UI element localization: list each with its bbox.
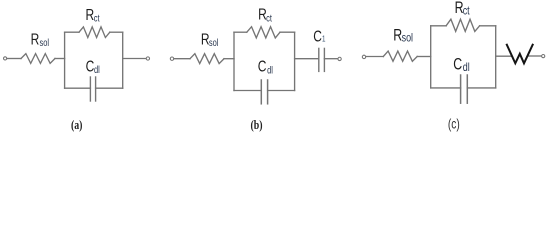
wire to Warburg (c) <box>496 55 511 57</box>
svg-text:dl: dl <box>267 64 273 75</box>
capacitor Cdl (c) <box>460 75 462 103</box>
resistor Rsol (b) <box>190 54 224 64</box>
node: box left vertical (a) <box>64 32 66 88</box>
wire <box>55 58 65 60</box>
label Rct (a) <box>86 5 100 24</box>
svg-text:C: C <box>258 57 267 75</box>
label C1 (b) <box>313 27 325 45</box>
wire top left (c) <box>431 25 446 27</box>
capacitor C1 (b) <box>318 48 320 71</box>
node: box left vertical (c) <box>430 26 432 88</box>
terminal left (b) <box>170 57 173 60</box>
wire top left (a) <box>65 31 79 33</box>
svg-text:(a): (a) <box>71 119 83 132</box>
svg-text:R: R <box>86 5 95 23</box>
svg-text:R: R <box>31 30 40 48</box>
wire <box>174 58 190 60</box>
wire <box>417 56 431 58</box>
svg-text:dl: dl <box>94 64 100 75</box>
wire top right (c) <box>480 25 496 27</box>
svg-text:ct: ct <box>266 12 272 23</box>
wire right (a) <box>123 58 147 60</box>
label Rct (b) <box>258 5 272 24</box>
terminal left (c) <box>362 55 365 58</box>
label Cdl (c) <box>453 56 470 75</box>
label Rsol (b) <box>201 30 219 48</box>
label Rsol (c) <box>393 27 413 45</box>
resistor Rct (c) <box>446 19 480 31</box>
wire <box>224 58 234 60</box>
svg-text:(b): (b) <box>250 119 262 132</box>
wire bottom left (b) <box>234 90 261 92</box>
svg-text:1: 1 <box>322 36 326 44</box>
resistor Rsol (c) <box>383 51 417 61</box>
wire top left (b) <box>234 31 247 33</box>
label Cdl (b) <box>258 57 273 76</box>
svg-text:C: C <box>86 57 95 75</box>
node: box right vertical (c) <box>495 26 497 88</box>
svg-text:C: C <box>453 56 462 74</box>
wire <box>7 58 21 60</box>
svg-text:C: C <box>313 27 322 45</box>
label Rsol (a) <box>31 30 49 48</box>
wire bottom right (a) <box>96 87 123 89</box>
wire bottom left (a) <box>65 87 91 89</box>
terminal right (a) <box>146 57 149 60</box>
svg-text:dl: dl <box>463 62 470 74</box>
capacitor Cdl (a) <box>89 77 91 101</box>
svg-text:R: R <box>393 27 402 45</box>
svg-text:ct: ct <box>463 6 470 18</box>
node: box right vertical (a) <box>122 32 124 88</box>
svg-text:ct: ct <box>94 12 100 23</box>
resistor Rct (a) <box>79 27 110 38</box>
wire top right (a) <box>110 31 123 33</box>
Warburg element W (c) <box>506 44 533 64</box>
node: box right vertical (b) <box>294 32 296 90</box>
wire right of box (b) <box>295 58 319 60</box>
svg-text:sol: sol <box>40 37 50 48</box>
terminal left (a) <box>4 57 7 60</box>
label Cdl (a) <box>86 57 100 76</box>
resistor Rsol (a) <box>21 54 55 64</box>
capacitor Cdl (b) <box>260 80 262 104</box>
wire bottom right (b) <box>268 90 295 92</box>
wire bottom right (c) <box>467 87 495 89</box>
node: box left vertical (b) <box>233 32 235 90</box>
wire to terminal (b) <box>324 58 338 60</box>
wire <box>366 56 383 58</box>
svg-text:(c): (c) <box>448 116 460 132</box>
wire top right (b) <box>280 31 295 33</box>
label Rct (c) <box>455 0 470 18</box>
resistor Rct (b) <box>247 27 280 38</box>
wire from Warburg (c) <box>528 55 541 57</box>
terminal right (b) <box>338 57 341 60</box>
svg-text:sol: sol <box>402 33 413 45</box>
svg-text:sol: sol <box>209 37 219 48</box>
wire bottom left (c) <box>431 87 461 89</box>
terminal right (c) <box>542 55 545 58</box>
